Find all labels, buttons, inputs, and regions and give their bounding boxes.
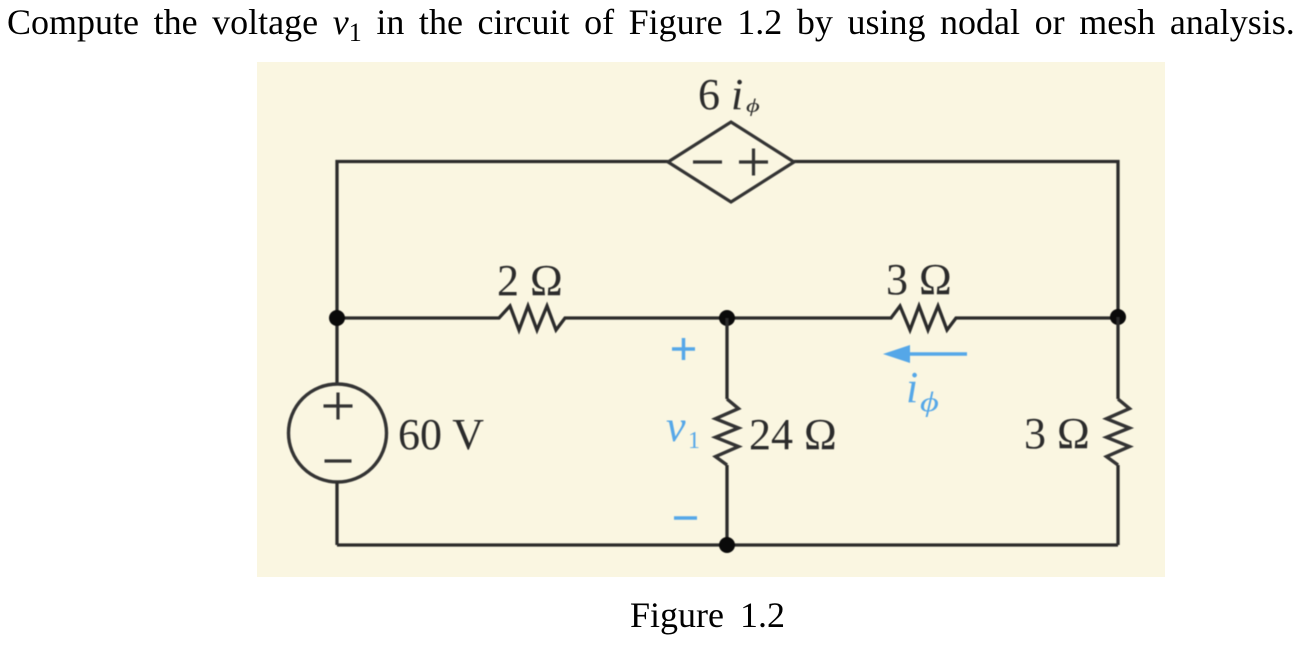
svg-text:6 i: 6 i — [698, 70, 743, 119]
resistor R4 3ohm vertical — [1107, 399, 1130, 465]
wire top-right segment — [794, 162, 1118, 319]
problem statement — [7, 1, 1295, 48]
bottom wire — [337, 543, 1118, 546]
svg-text:i: i — [906, 363, 918, 412]
right branch wire lower — [1116, 465, 1119, 545]
middle wire with resistor R2 3ohm — [727, 306, 1118, 330]
svg-text:3 Ω: 3 Ω — [1024, 409, 1090, 458]
svg-text:3 Ω: 3 Ω — [886, 255, 952, 304]
plus sign inside diamond — [739, 160, 768, 163]
wire left vertical upper — [335, 318, 338, 384]
schematic panel background — [257, 62, 1165, 577]
svg-text:60 V: 60 V — [398, 410, 484, 459]
minus sign in source — [325, 459, 352, 462]
blue current arrow i_phi — [908, 352, 967, 356]
wire top-left segment — [337, 162, 668, 319]
plus sign in source — [324, 404, 353, 407]
voltage source V1 circle — [289, 384, 387, 482]
svg-text:ϕ: ϕ — [920, 387, 939, 417]
node D bottom — [719, 537, 735, 553]
node A left — [329, 310, 345, 326]
blue plus polarity — [672, 347, 695, 351]
middle branch wire upper — [725, 318, 728, 399]
figure caption — [630, 594, 785, 636]
middle wire with resistor R1 2ohm — [337, 306, 727, 330]
wire left vertical lower — [335, 482, 338, 545]
minus sign inside diamond — [693, 160, 722, 163]
dependent source U1 diamond — [668, 122, 794, 202]
svg-text:ϕ: ϕ — [746, 95, 760, 116]
right branch wire upper — [1116, 317, 1119, 399]
node C right — [1110, 309, 1126, 325]
svg-text:1: 1 — [688, 428, 700, 454]
svg-text:24 Ω: 24 Ω — [749, 410, 837, 459]
blue minus polarity — [674, 516, 697, 520]
svg-text:v: v — [666, 402, 686, 451]
middle branch wire lower — [725, 465, 728, 545]
svg-text:2 Ω: 2 Ω — [497, 256, 563, 305]
node B middle — [719, 310, 735, 326]
resistor R3 24ohm vertical — [716, 399, 739, 465]
